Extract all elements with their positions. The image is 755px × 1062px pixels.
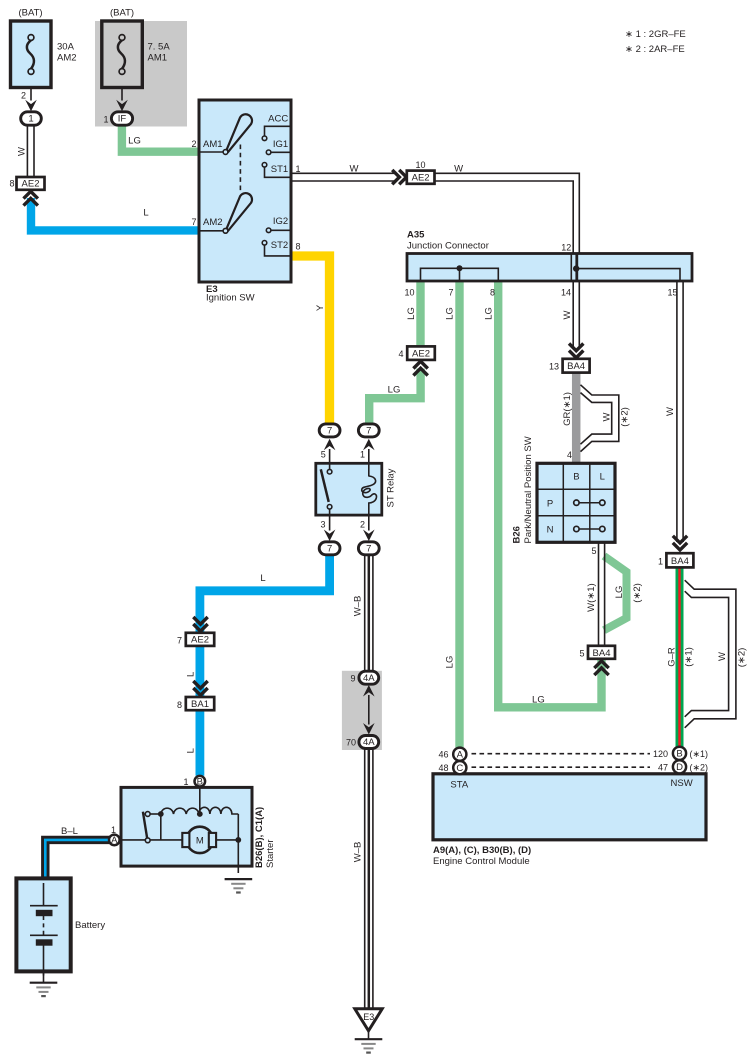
svg-text:7: 7 [448,288,453,298]
svg-text:13: 13 [549,362,559,372]
svg-text:Ignition SW: Ignition SW [206,293,255,304]
svg-text:4: 4 [398,349,403,359]
svg-text:AE2: AE2 [22,179,40,190]
svg-text:7: 7 [177,636,182,646]
svg-text:W–B: W–B [352,842,363,863]
svg-text:LG: LG [483,307,494,320]
svg-text:(∗1): (∗1) [683,647,694,667]
svg-text:120: 120 [653,749,668,759]
svg-text:∗ 1 : 2GR–FE: ∗ 1 : 2GR–FE [625,29,686,40]
svg-text:(∗2): (∗2) [620,407,631,427]
svg-text:8: 8 [9,179,14,189]
svg-text:E3: E3 [363,1012,374,1022]
svg-text:B26(B), C1(A): B26(B), C1(A) [254,807,265,868]
svg-text:LG: LG [445,656,456,669]
svg-text:Y: Y [315,304,326,311]
svg-text:W–B: W–B [352,596,363,617]
svg-text:(∗2): (∗2) [632,583,643,603]
svg-text:P: P [547,498,553,509]
svg-text:4A: 4A [363,673,375,684]
svg-text:1: 1 [28,114,33,125]
svg-text:(BAT): (BAT) [18,8,42,19]
svg-text:(∗1): (∗1) [690,749,709,759]
svg-text:BA4: BA4 [593,648,611,659]
svg-text:BA4: BA4 [567,361,585,372]
svg-text:W(∗1): W(∗1) [586,583,597,612]
svg-text:ST1: ST1 [271,164,288,175]
svg-text:5: 5 [321,450,326,460]
svg-text:AE2: AE2 [412,349,430,360]
svg-text:2: 2 [191,139,196,149]
svg-text:1: 1 [360,450,365,460]
svg-text:48: 48 [438,763,448,773]
svg-text:1: 1 [111,825,116,835]
svg-text:GR(∗1): GR(∗1) [562,392,573,426]
svg-text:LG: LG [128,136,141,147]
svg-text:10: 10 [404,288,414,298]
svg-text:BA4: BA4 [671,556,689,567]
svg-text:30A: 30A [57,42,75,53]
svg-text:7. 5A: 7. 5A [148,42,171,53]
svg-text:4: 4 [567,450,572,460]
svg-text:15: 15 [667,288,677,298]
svg-text:9: 9 [350,673,355,683]
svg-text:W: W [562,310,573,319]
svg-text:Starter: Starter [265,839,276,868]
svg-text:A35: A35 [407,230,425,241]
svg-text:(∗2): (∗2) [690,762,709,772]
svg-text:N: N [547,525,554,536]
svg-text:A: A [111,835,118,846]
svg-text:7: 7 [366,543,371,554]
svg-text:1: 1 [103,115,108,125]
svg-text:AM2: AM2 [203,217,223,228]
svg-text:BA1: BA1 [191,699,209,710]
svg-text:7: 7 [327,543,332,554]
svg-text:Park/Neutral Position SW: Park/Neutral Position SW [523,436,534,543]
svg-text:Junction Connector: Junction Connector [407,241,489,252]
svg-text:3: 3 [320,520,325,530]
svg-text:B: B [573,472,579,483]
svg-text:LG: LG [532,695,545,706]
svg-text:47: 47 [658,762,668,772]
svg-text:L: L [600,472,605,483]
svg-text:STA: STA [450,780,468,791]
svg-text:A: A [457,749,464,760]
svg-text:W: W [717,652,728,661]
svg-text:B: B [197,777,203,788]
svg-text:A9(A), (C), B30(B), (D): A9(A), (C), B30(B), (D) [433,845,531,856]
svg-text:8: 8 [177,700,182,710]
svg-text:M: M [196,835,204,846]
svg-text:AE2: AE2 [191,635,209,646]
svg-text:7: 7 [191,217,196,227]
svg-text:46: 46 [438,750,448,760]
svg-text:LG: LG [388,385,401,396]
svg-text:7: 7 [327,426,332,437]
svg-text:W: W [454,164,463,175]
svg-text:B26: B26 [511,526,522,543]
svg-text:IF: IF [118,114,127,125]
svg-text:W: W [16,147,27,156]
svg-text:2: 2 [360,520,365,530]
svg-text:NSW: NSW [671,778,693,789]
svg-text:C: C [456,763,463,774]
svg-text:5: 5 [579,648,584,658]
svg-text:10: 10 [415,160,425,170]
svg-text:AM2: AM2 [57,53,77,64]
svg-text:ST2: ST2 [271,240,288,251]
svg-text:G–R: G–R [666,647,677,667]
svg-text:IG2: IG2 [273,216,288,227]
svg-text:1: 1 [658,557,663,567]
svg-text:L: L [260,573,265,584]
svg-text:(∗2): (∗2) [736,648,747,668]
svg-text:(BAT): (BAT) [110,8,134,19]
svg-text:ACC: ACC [268,114,288,125]
svg-text:W: W [601,412,612,421]
svg-text:ST Relay: ST Relay [385,468,396,507]
svg-text:LG: LG [445,307,456,320]
svg-text:LG: LG [614,586,625,599]
svg-text:AE2: AE2 [412,173,430,184]
svg-text:B: B [676,749,682,760]
svg-text:D: D [676,762,683,773]
svg-text:IG1: IG1 [273,139,288,150]
svg-text:W: W [350,163,359,174]
svg-text:1: 1 [183,777,188,787]
svg-text:L: L [186,672,197,677]
svg-text:14: 14 [561,287,571,297]
svg-text:AM1: AM1 [148,53,168,64]
svg-text:∗ 2 : 2AR–FE: ∗ 2 : 2AR–FE [625,44,685,55]
svg-text:8: 8 [296,241,301,251]
svg-text:AM1: AM1 [203,139,223,150]
svg-text:1: 1 [296,164,301,174]
svg-text:70: 70 [346,738,356,748]
svg-text:Battery: Battery [75,920,105,931]
svg-text:LG: LG [406,307,417,320]
svg-text:8: 8 [490,288,495,298]
svg-text:W: W [665,407,676,416]
svg-text:5: 5 [591,546,596,556]
svg-text:L: L [186,748,197,753]
svg-text:Engine Control Module: Engine Control Module [433,856,530,867]
svg-text:4A: 4A [363,737,375,748]
svg-text:7: 7 [366,426,371,437]
svg-text:12: 12 [561,243,571,253]
svg-text:B–L: B–L [61,826,78,837]
svg-text:2: 2 [21,91,26,101]
svg-text:L: L [143,208,148,219]
